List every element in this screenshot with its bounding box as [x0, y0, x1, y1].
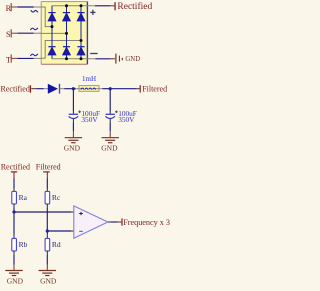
- svg-text:GND: GND: [64, 143, 81, 152]
- svg-text:Rectified: Rectified: [1, 85, 30, 94]
- svg-text:1mH: 1mH: [82, 75, 96, 83]
- svg-text:S: S: [6, 30, 11, 39]
- svg-text:Filtered: Filtered: [142, 85, 167, 94]
- svg-text:350V: 350V: [118, 115, 135, 124]
- svg-text:Rb: Rb: [19, 240, 28, 249]
- svg-text:350V: 350V: [81, 115, 98, 124]
- svg-text:Rd: Rd: [52, 240, 61, 249]
- svg-text:Rectified: Rectified: [117, 1, 152, 12]
- svg-text:Frequency x 3: Frequency x 3: [123, 218, 170, 227]
- svg-text:GND: GND: [7, 276, 24, 285]
- svg-text:Rc: Rc: [52, 193, 61, 202]
- svg-text:Rectified: Rectified: [1, 162, 30, 171]
- svg-text:GND: GND: [125, 56, 140, 63]
- svg-text:Ra: Ra: [19, 193, 28, 202]
- svg-text:Filtered: Filtered: [36, 162, 61, 171]
- svg-text:GND: GND: [40, 276, 57, 285]
- svg-text:T: T: [6, 55, 11, 64]
- svg-text:GND: GND: [101, 143, 118, 152]
